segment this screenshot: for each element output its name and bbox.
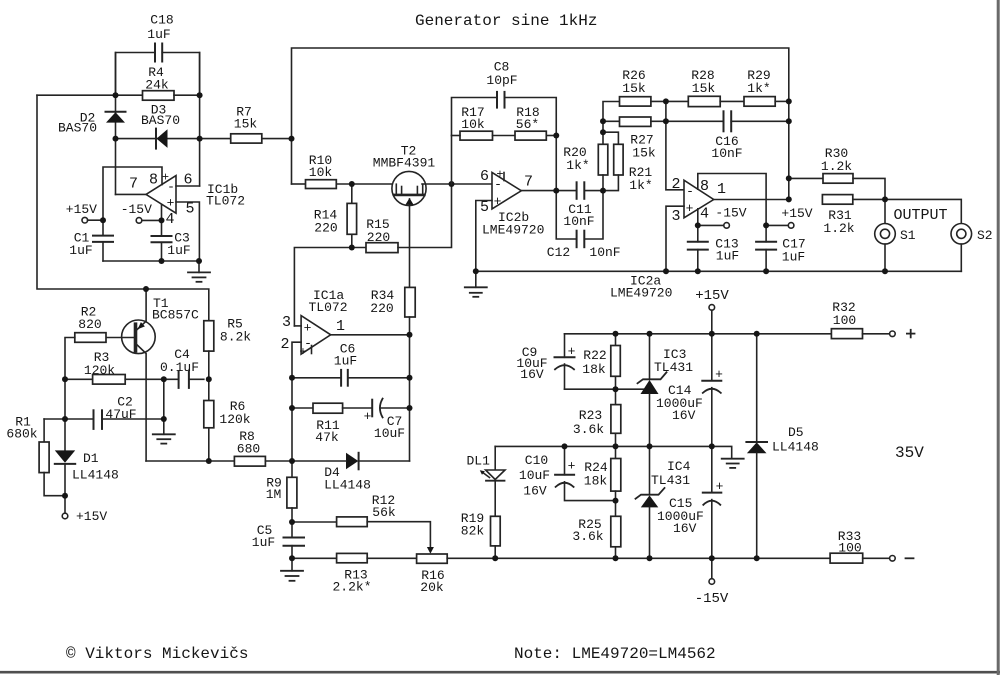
resistor R31: [822, 195, 852, 205]
svg-text:1uF: 1uF: [782, 250, 805, 265]
junction node (788.8,199.4): [786, 196, 792, 202]
resistor R22: [615, 334, 617, 346]
resistor R9: [291, 461, 293, 477]
junction node (163.8,419): [161, 416, 167, 422]
resistor R3: [93, 375, 126, 385]
svg-text:BAS70: BAS70: [58, 121, 97, 136]
svg-text:TL072: TL072: [309, 300, 348, 315]
wire vertical D2/output: [115, 53, 117, 195]
svg-text:+: +: [162, 171, 169, 185]
svg-text:82k: 82k: [461, 524, 485, 539]
svg-text:7: 7: [524, 174, 533, 191]
potentiometer R16: [417, 554, 448, 563]
svg-text:C10: C10: [525, 453, 548, 468]
wire pin2 feedback vertical: [292, 342, 301, 461]
svg-text:LME49720: LME49720: [482, 223, 544, 238]
svg-text:7: 7: [129, 176, 138, 193]
junction node (65,419): [62, 416, 68, 422]
resistor R24: [615, 446, 617, 458]
resistor R1: [43, 419, 45, 442]
wire pin6 input: [176, 185, 200, 187]
wire R4 top rail: [37, 94, 143, 96]
op-amp IC1a TL072: [301, 316, 331, 355]
svg-text:10uF: 10uF: [374, 426, 405, 441]
svg-text:Note: LME49720=LM4562: Note: LME49720=LM4562: [514, 645, 716, 663]
wire R31 right to S2: [853, 199, 962, 223]
svg-text:1: 1: [717, 181, 726, 198]
svg-text:+: +: [715, 367, 723, 382]
junction node (451.5,184): [449, 181, 455, 187]
svg-text:16V: 16V: [673, 521, 697, 536]
junction node (146,289): [143, 286, 149, 292]
diode D3 BAS70: [155, 129, 157, 149]
capacitor C3: [152, 235, 172, 237]
resistor R27: [620, 117, 651, 126]
terminal S2: [951, 224, 972, 245]
resistor R21 branch: [603, 132, 618, 144]
svg-text:47uF: 47uF: [105, 407, 136, 422]
junction node (788.8,101.4): [786, 98, 792, 104]
wire pin5 input to ground: [176, 202, 199, 261]
svg-text:220: 220: [370, 301, 393, 316]
junction node (885,271.3): [882, 268, 888, 274]
ground C5: [291, 558, 293, 571]
junction node (603,190.6): [600, 188, 606, 194]
terminal +15V IC2a: [766, 224, 788, 226]
resistor R2: [75, 333, 106, 343]
junction node (65,379.3): [62, 376, 68, 382]
capacitor C16: [666, 120, 724, 122]
junction node (292,461): [289, 458, 295, 464]
svg-text:56k: 56k: [372, 505, 396, 520]
capacitor C12 loop: [556, 191, 576, 239]
svg-text:5: 5: [480, 199, 489, 216]
junction node (103,220.2): [100, 217, 106, 223]
svg-text:S1: S1: [900, 228, 916, 243]
wire R30 left: [789, 177, 823, 179]
svg-text:120k: 120k: [219, 412, 250, 427]
wire R3 to C4: [125, 378, 178, 380]
svg-text:1uF: 1uF: [147, 27, 170, 42]
svg-text:3: 3: [282, 314, 291, 331]
svg-text:16V: 16V: [523, 484, 547, 499]
wire R6 bottom: [208, 428, 210, 461]
svg-text:-: -: [686, 184, 694, 199]
svg-text:10k: 10k: [309, 165, 333, 180]
wire R30 right corner: [853, 178, 885, 199]
junction node (161.5,261): [159, 258, 165, 264]
op-amp IC2b LME49720: [492, 173, 521, 209]
terminal -15V IC2a: [698, 224, 724, 226]
svg-text:15k: 15k: [692, 81, 716, 96]
resistor R29: [744, 97, 775, 107]
wire pin3 stub: [294, 325, 301, 327]
junction node (756.7,558.3): [754, 555, 760, 561]
junction node (556.25,135.5): [553, 133, 559, 139]
svg-text:2: 2: [671, 176, 680, 193]
svg-text:LL4148: LL4148: [72, 468, 119, 483]
junction node (161.5,220.4): [159, 217, 165, 223]
terminal -15V PSU: [711, 558, 713, 578]
svg-text:1k*: 1k*: [747, 81, 770, 96]
junction node (475.8,271.3): [473, 268, 479, 274]
svg-text:R23: R23: [579, 408, 602, 423]
svg-text:3.6k: 3.6k: [573, 422, 604, 437]
wire IC1b bottom: [103, 260, 199, 262]
wire pin4 stub: [161, 205, 163, 237]
op-amp IC2a LME49720: [684, 180, 714, 218]
resistor R23: [615, 389, 617, 404]
svg-text:8: 8: [700, 178, 709, 195]
svg-text:LL4148: LL4148: [772, 440, 819, 455]
junction node (711.8,446.4): [709, 443, 715, 449]
junction node (697.8,271.3): [695, 268, 701, 274]
svg-text:+: +: [167, 196, 175, 211]
capacitor C6: [292, 377, 341, 379]
junction node (409.5,408): [407, 405, 413, 411]
wire IC2b output: [521, 190, 576, 192]
wire C18 loop right: [162, 53, 199, 96]
svg-text:10pF: 10pF: [486, 73, 517, 88]
svg-text:47k: 47k: [315, 430, 339, 445]
wire R26 left corner: [603, 102, 620, 145]
wire R8 right: [265, 460, 292, 462]
wire D4 row: [292, 460, 346, 462]
svg-text:8.2k: 8.2k: [220, 330, 251, 345]
wire C18 loop left: [116, 53, 156, 96]
capacitor C9: [564, 334, 566, 358]
svg-text:C18: C18: [150, 13, 173, 28]
terminal +15V bottom: [62, 513, 68, 519]
resistor R19: [491, 516, 501, 546]
wire pin4 stub: [697, 209, 699, 226]
wire C4/C2 ground vertical: [163, 379, 165, 434]
junction node (292,522): [289, 519, 295, 525]
wire D3/R7 line: [116, 138, 231, 140]
svg-text:1k*: 1k*: [566, 158, 589, 173]
capacitor C14: [711, 334, 713, 381]
svg-text:680: 680: [237, 442, 260, 457]
junction node (495.2,558.3): [492, 555, 498, 561]
junction node (351.8,184): [349, 181, 355, 187]
svg-text:© Viktors Mickevičs: © Viktors Mickevičs: [66, 645, 248, 663]
wire IC1a output: [331, 334, 410, 336]
junction node (615.5,389.2): [613, 386, 619, 392]
svg-text:18k: 18k: [584, 474, 608, 489]
wire C2 row: [44, 418, 93, 420]
junction node (564.5,446.4): [562, 443, 568, 449]
capacitor C4: [178, 371, 180, 388]
svg-text:5: 5: [185, 201, 194, 218]
svg-text:C12: C12: [547, 245, 570, 260]
diode D4 LL4148: [346, 453, 358, 470]
wire ground rail: [476, 270, 962, 272]
resistor R15: [366, 243, 398, 253]
svg-text:4: 4: [700, 206, 709, 223]
svg-text:15k: 15k: [632, 146, 656, 161]
svg-text:+15V: +15V: [66, 202, 97, 217]
junction node (615.5,558.3): [613, 555, 619, 561]
wire vertical R18 to output: [555, 136, 557, 191]
junction node (199,261): [196, 258, 202, 264]
wire IC2a output: [714, 199, 789, 201]
diode D2 BAS70: [106, 111, 126, 113]
junction node (291.5,138.6): [289, 136, 295, 142]
junction node (665.9,121.3): [663, 118, 669, 124]
ground C4: [153, 433, 175, 435]
junction node (711.8,333.8): [709, 331, 715, 337]
wire R7 right: [262, 138, 292, 140]
wire R18 right: [546, 135, 556, 137]
svg-text:-15V: -15V: [695, 591, 729, 607]
wire R4 right: [174, 94, 200, 96]
junction node (711.8,558.3): [709, 555, 715, 561]
svg-text:-15V: -15V: [715, 206, 746, 221]
capacitor C8: [496, 92, 498, 108]
svg-text:+15V: +15V: [695, 288, 729, 304]
resistor R6: [204, 401, 214, 428]
svg-text:LME49720: LME49720: [610, 286, 672, 301]
svg-text:+: +: [364, 409, 372, 424]
svg-text:+: +: [716, 479, 724, 494]
wire pin5 to ground rail: [476, 201, 492, 272]
capacitor C18: [154, 44, 156, 62]
svg-text:2: 2: [280, 336, 289, 353]
ground pin5: [475, 271, 477, 287]
svg-text:OUTPUT: OUTPUT: [893, 207, 947, 224]
svg-text:56*: 56*: [516, 117, 539, 132]
svg-text:Generator sine 1kHz: Generator sine 1kHz: [415, 12, 597, 30]
resistor R28: [688, 96, 720, 106]
wire pin3 to ground rail: [666, 206, 684, 271]
resistor R33: [830, 553, 863, 563]
svg-text:IC4: IC4: [667, 459, 691, 474]
wire R27 right: [651, 120, 666, 122]
svg-text:+15V: +15V: [76, 509, 107, 524]
junction node (788.8,121.3): [786, 118, 792, 124]
capacitor C5: [291, 522, 293, 538]
svg-text:1k*: 1k*: [629, 178, 652, 193]
junction node (409.5,377.8): [407, 375, 413, 381]
junction node (115.5,95.2): [113, 92, 119, 98]
svg-text:2.2k*: 2.2k*: [332, 580, 371, 595]
wire R15 row with pin3 drop: [294, 248, 366, 326]
capacitor C13: [697, 225, 699, 241]
capacitor C11: [576, 182, 578, 199]
wire R10 to T2: [336, 183, 396, 185]
wire R28 left: [666, 100, 688, 102]
junction node (885,199.4): [882, 196, 888, 202]
svg-text:D5: D5: [788, 425, 804, 440]
svg-text:+: +: [686, 201, 694, 216]
wire R2 left corner: [65, 338, 75, 451]
junction node (208.8,461): [206, 458, 212, 464]
svg-text:8: 8: [149, 172, 158, 189]
junction node (615.5,333.8): [613, 331, 619, 337]
transistor T1 BC857C: [122, 320, 156, 354]
junction node (766.1,225.4): [763, 222, 769, 228]
svg-text:R22: R22: [583, 348, 606, 363]
junction node (766.1,271.3): [763, 268, 769, 274]
svg-text:120k: 120k: [84, 363, 115, 378]
junction node (208.8,379.3): [206, 376, 212, 382]
wire pin8 supply box: [698, 174, 766, 226]
svg-text:20k: 20k: [420, 580, 444, 595]
wire T2 drain to pin6: [422, 183, 492, 185]
wire vertical to drain node: [451, 136, 453, 185]
capacitor C15: [711, 446, 713, 492]
svg-text:4: 4: [165, 211, 174, 228]
wire R26 right: [651, 100, 666, 102]
svg-text:BAS70: BAS70: [141, 113, 180, 128]
junction node (351.8,247.5): [349, 245, 355, 251]
svg-text:100: 100: [838, 541, 861, 556]
junction node (556.25,190.6): [553, 188, 559, 194]
wire output stub: [116, 193, 147, 195]
wire bottom rail to R33: [447, 557, 830, 559]
resistor R13: [337, 553, 368, 562]
transistor T2 MMBF4391: [392, 171, 426, 205]
wire C8 loop: [452, 98, 498, 136]
svg-text:680k: 680k: [6, 427, 37, 442]
svg-text:1M: 1M: [266, 487, 282, 502]
svg-text:1uF: 1uF: [716, 249, 739, 264]
wire R13 row: [292, 557, 337, 559]
wire R17-R18: [493, 135, 516, 137]
wire R12 to pot wiper: [367, 522, 430, 547]
svg-text:220: 220: [314, 221, 337, 236]
svg-text:24k: 24k: [145, 78, 169, 93]
wire R3 row: [65, 378, 93, 380]
svg-text:10uF: 10uF: [519, 468, 550, 483]
junction node (199.6,95.2): [197, 92, 203, 98]
wire R5 to R6: [208, 351, 210, 400]
svg-text:DL1: DL1: [467, 454, 491, 469]
wire R28-R29: [720, 100, 744, 102]
svg-text:MMBF4391: MMBF4391: [373, 156, 436, 171]
resistor R26: [620, 97, 651, 106]
junction node (649.5,446.4): [647, 443, 653, 449]
svg-text:1uF: 1uF: [334, 354, 357, 369]
svg-text:+: +: [304, 321, 312, 336]
svg-text:TL072: TL072: [206, 194, 245, 209]
junction node (163.8,379.3): [161, 376, 167, 382]
wire R32 to + terminal: [863, 333, 890, 335]
svg-text:TL431: TL431: [654, 360, 693, 375]
junction node (615.5,500.6): [613, 498, 619, 504]
diode D5 LL4148: [756, 334, 758, 442]
wire vertical right of R4 down to pin6: [199, 53, 201, 187]
svg-text:220: 220: [367, 230, 390, 245]
svg-text:BC857C: BC857C: [152, 308, 199, 323]
op-amp IC1b TL072: [146, 176, 176, 214]
wire R29 right: [775, 100, 789, 102]
LED DL1: [494, 446, 496, 470]
junction node (409.5,334.8): [407, 332, 413, 338]
wire R12 row: [292, 521, 337, 523]
svg-text:+: +: [496, 168, 503, 182]
wire R7 node vertical and top feedback rail: [292, 48, 789, 199]
svg-text:+: +: [299, 345, 306, 359]
wire R17 left: [452, 135, 461, 137]
junction node (615.5,446.4): [613, 443, 619, 449]
svg-text:6: 6: [480, 168, 489, 185]
wire +15V rail: [565, 333, 832, 335]
svg-text:TL431: TL431: [651, 473, 690, 488]
border right: [997, 0, 1000, 675]
wire R27 left: [603, 120, 620, 122]
junction node (649.5,333.8): [647, 331, 653, 337]
svg-text:16V: 16V: [520, 367, 544, 382]
resistor R20: [598, 144, 608, 175]
junction node (115.5,138.6): [113, 136, 119, 142]
svg-text:10k: 10k: [461, 117, 485, 132]
junction node (756.7,333.8): [754, 331, 760, 337]
svg-text:10nF: 10nF: [563, 214, 594, 229]
svg-text:1: 1: [336, 318, 345, 335]
resistor R18: [515, 131, 546, 140]
terminal S1: [884, 199, 886, 223]
svg-text:+: +: [568, 344, 576, 359]
junction node (292,408): [289, 405, 295, 411]
diode D1 LL4148: [55, 450, 75, 462]
svg-text:1uF: 1uF: [252, 535, 275, 550]
resistor R10: [306, 180, 337, 189]
wire supply box pin8: [103, 167, 162, 220]
wire R13 to R16: [367, 557, 416, 559]
svg-text:10nF: 10nF: [711, 146, 742, 161]
svg-text:1.2k: 1.2k: [823, 221, 854, 236]
svg-text:3: 3: [671, 208, 680, 225]
capacitor C17: [765, 225, 767, 241]
resistor R8: [234, 456, 265, 466]
svg-text:0.1uF: 0.1uF: [160, 360, 199, 375]
wire left rail from R4 to emitter row: [37, 95, 209, 321]
border bottom: [0, 671, 1000, 674]
svg-text:10nF: 10nF: [589, 245, 620, 260]
terminal -15V: [136, 218, 142, 224]
svg-text:820: 820: [78, 317, 101, 332]
wire R8 row: [146, 460, 234, 462]
svg-text:35V: 35V: [895, 444, 924, 462]
junction node (649.5,558.3): [647, 555, 653, 561]
wire output feedback vertical: [409, 335, 411, 461]
resistor R17: [460, 131, 493, 140]
svg-text:-15V: -15V: [121, 202, 152, 217]
svg-text:1uF: 1uF: [167, 243, 190, 258]
ground mid rail: [722, 458, 744, 460]
svg-text:LL4148: LL4148: [324, 478, 371, 493]
svg-text:1uF: 1uF: [69, 243, 92, 258]
resistor R30: [823, 174, 853, 184]
shunt regulator IC4 TL431: [649, 446, 651, 494]
wire R15 right to drain node: [398, 184, 452, 248]
junction node (199.6,138.6): [197, 136, 203, 142]
resistor R11: [292, 407, 313, 409]
svg-text:18k: 18k: [582, 362, 606, 377]
svg-text:+: +: [494, 194, 502, 209]
capacitor C2: [93, 410, 95, 429]
junction node (697.8,225.4): [695, 222, 701, 228]
resistor R12: [337, 517, 368, 527]
resistor R4: [143, 91, 175, 101]
wire right column to IC2a pin2: [666, 101, 684, 189]
svg-text:D1: D1: [83, 451, 99, 466]
svg-text:1.2k: 1.2k: [821, 159, 852, 174]
junction node (665.9,101.4): [663, 98, 669, 104]
resistor R14: [351, 184, 353, 203]
junction node (603,132.2): [600, 129, 606, 135]
